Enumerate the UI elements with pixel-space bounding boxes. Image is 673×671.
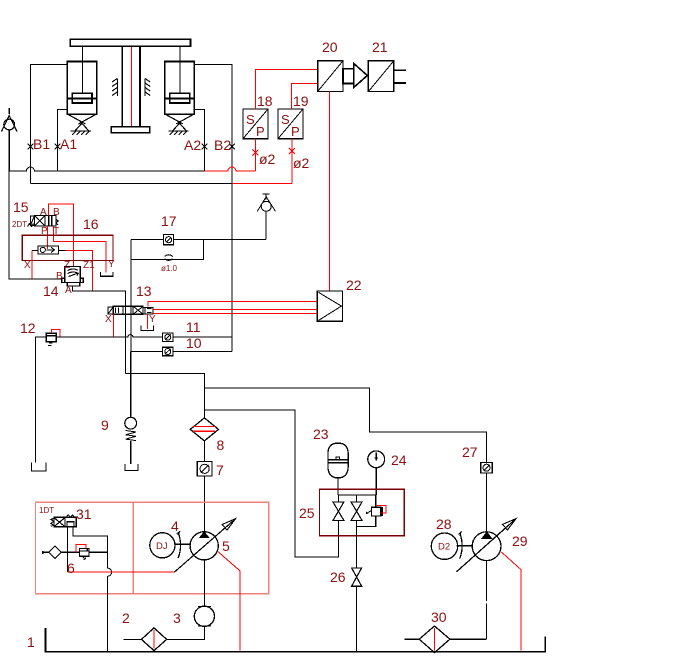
wire 14-A to valve 13 P bbox=[72, 286, 125, 374]
svg-text:14: 14 bbox=[43, 283, 59, 299]
check valve 17 bbox=[164, 235, 174, 245]
press base plate bbox=[111, 127, 149, 133]
svg-text:X: X bbox=[24, 260, 31, 271]
svg-text:24: 24 bbox=[391, 452, 407, 468]
wire 13 to amplifier 22 b bbox=[153, 308, 317, 310]
right guide hatch bbox=[145, 79, 151, 97]
port tick B2 bbox=[229, 144, 235, 150]
svg-text:6: 6 bbox=[67, 560, 75, 576]
vertical 13 T-line bbox=[130, 240, 132, 352]
drain bracket Y (block 16) bbox=[100, 272, 113, 276]
svg-text:P: P bbox=[41, 226, 48, 237]
orifice branch line bbox=[131, 240, 203, 260]
valve 13 X drain bbox=[113, 314, 115, 337]
port tick A1 bbox=[55, 144, 61, 150]
svg-text:Y: Y bbox=[149, 314, 156, 325]
svg-text:1: 1 bbox=[27, 634, 35, 650]
svg-text:Z1: Z1 bbox=[83, 260, 95, 271]
svg-text:ø2: ø2 bbox=[293, 155, 310, 171]
svg-text:17: 17 bbox=[161, 213, 177, 229]
line to accumulator block bbox=[204, 410, 338, 557]
svg-text:26: 26 bbox=[330, 569, 346, 585]
cylinder left body bbox=[67, 46, 96, 114]
port tick A2 bbox=[202, 144, 208, 150]
tank bracket (valve 9) bbox=[125, 464, 138, 470]
svg-text:5: 5 bbox=[222, 538, 230, 554]
svg-text:27: 27 bbox=[462, 444, 478, 460]
tank outline 1 bbox=[46, 628, 546, 652]
svg-text:P: P bbox=[291, 124, 300, 139]
svg-text:B: B bbox=[56, 271, 63, 282]
solenoid valve 15 bbox=[28, 215, 59, 226]
svg-text:S: S bbox=[246, 112, 255, 127]
wire check valve outlet Z1 bbox=[58, 250, 92, 291]
power unit enclosure bbox=[36, 502, 269, 593]
check valve 10 bbox=[163, 347, 173, 356]
swashplate arrow pump 5 bbox=[174, 519, 235, 573]
main pressure line to pump 5 bbox=[203, 476, 205, 532]
svg-text:ø1.0: ø1.0 bbox=[161, 264, 178, 273]
svg-text:2: 2 bbox=[122, 610, 130, 626]
svg-text:X: X bbox=[105, 314, 112, 325]
accumulator block 25 outline bbox=[320, 489, 405, 535]
left guide hatch bbox=[112, 79, 118, 97]
coupler between 20 and 21 bbox=[343, 63, 367, 87]
wire 18 to box 20 bbox=[255, 69, 317, 109]
wire 15-B to valve 14 pilot bbox=[48, 204, 73, 266]
svg-text:P: P bbox=[256, 124, 265, 139]
proportional valve 13 bbox=[108, 306, 153, 314]
valve 13 Y drain bbox=[146, 314, 148, 329]
pressure switch 18 bbox=[243, 109, 268, 139]
variable pump 5 bbox=[190, 532, 218, 560]
svg-text:10: 10 bbox=[186, 335, 202, 351]
svg-text:7: 7 bbox=[216, 462, 224, 478]
svg-text:D2: D2 bbox=[438, 542, 450, 553]
pump 29 drain (red) bbox=[501, 552, 521, 651]
svg-text:S: S bbox=[281, 112, 290, 127]
svg-text:Y: Y bbox=[108, 259, 115, 270]
cylinder left cone support + ground bbox=[68, 114, 96, 135]
svg-text:31: 31 bbox=[76, 506, 92, 522]
line 10 bbox=[131, 351, 232, 353]
shut-off valve 25a bbox=[333, 495, 344, 520]
electric motor 28 bbox=[431, 532, 472, 560]
svg-text:B2: B2 bbox=[214, 137, 231, 153]
shut-off valve 26 bbox=[352, 568, 362, 652]
press crossbeam bbox=[70, 39, 190, 46]
wire port B2 riser bbox=[194, 65, 232, 352]
svg-text:A: A bbox=[65, 285, 72, 296]
svg-text:25: 25 bbox=[299, 505, 315, 521]
svg-text:B1: B1 bbox=[33, 136, 50, 152]
wire 19 to B-line bbox=[289, 139, 295, 184]
wire check valve inlet X bbox=[32, 250, 38, 279]
wire 18 to A-line bbox=[252, 139, 258, 171]
accumulator 23 bbox=[328, 443, 348, 495]
svg-text:B: B bbox=[53, 207, 60, 218]
svg-text:12: 12 bbox=[20, 320, 36, 336]
pressure gauge 24 bbox=[368, 451, 385, 495]
valve 12 bbox=[46, 330, 60, 346]
reducing valve 6 bbox=[67, 544, 107, 559]
wire 19 to box 20 bbox=[292, 84, 318, 110]
wire 13 to amplifier 22 c bbox=[153, 313, 317, 315]
filter 30 bbox=[404, 626, 486, 653]
pressure switch 19 bbox=[278, 109, 303, 139]
tank bracket (valve 12) bbox=[31, 463, 46, 471]
block 25 top line bbox=[338, 494, 376, 496]
svg-text:A1: A1 bbox=[60, 136, 77, 152]
svg-text:15: 15 bbox=[13, 199, 29, 215]
breather mid bbox=[257, 194, 275, 240]
relief valve 9 bbox=[125, 352, 137, 465]
valve 31 right line bbox=[73, 527, 112, 652]
svg-text:21: 21 bbox=[372, 39, 388, 55]
feed pump 3 bbox=[167, 560, 215, 640]
drain bracket Y (valve 13) bbox=[141, 326, 154, 331]
manifold block 16 outline bbox=[22, 235, 113, 260]
svg-text:11: 11 bbox=[186, 319, 201, 335]
svg-text:20: 20 bbox=[322, 39, 338, 55]
orifice symbol bbox=[165, 255, 173, 261]
line valve12 to B2 riser bbox=[56, 335, 232, 338]
amplifier box 21 bbox=[368, 61, 405, 92]
node B-line bbox=[30, 183, 292, 185]
svg-text:1DT: 1DT bbox=[39, 506, 54, 515]
svg-text:13: 13 bbox=[136, 283, 152, 299]
amplifier box 22 bbox=[317, 291, 342, 321]
shut-off valve 25b bbox=[351, 495, 362, 520]
svg-text:3: 3 bbox=[173, 610, 181, 626]
breather left bbox=[2, 108, 18, 171]
svg-text:DJ: DJ bbox=[156, 541, 168, 552]
node A-line bbox=[9, 167, 255, 171]
check valve 11 bbox=[163, 333, 173, 342]
wire 13 to amplifier 22 a bbox=[148, 301, 317, 306]
wire box 20 to amplifier 22 bbox=[328, 92, 330, 292]
svg-text:28: 28 bbox=[436, 516, 452, 532]
wire port A2 bbox=[194, 110, 204, 171]
svg-text:2DT: 2DT bbox=[12, 220, 27, 229]
cylinder right cone support + ground bbox=[166, 114, 194, 135]
suction strainer (pilot) bbox=[43, 546, 68, 559]
filter 8 bbox=[190, 418, 218, 441]
svg-text:9: 9 bbox=[101, 417, 109, 433]
relief valve 25c bbox=[357, 495, 386, 526]
svg-text:16: 16 bbox=[83, 216, 99, 232]
svg-text:8: 8 bbox=[217, 437, 225, 453]
check valve 7 bbox=[197, 441, 212, 476]
svg-text:22: 22 bbox=[346, 277, 362, 293]
wire 14-B bbox=[9, 171, 62, 279]
svg-text:18: 18 bbox=[257, 93, 273, 109]
svg-text:23: 23 bbox=[313, 426, 329, 442]
svg-text:Z: Z bbox=[64, 260, 70, 271]
press column bbox=[122, 46, 140, 126]
pilot check valve in block 16 bbox=[38, 246, 58, 254]
port tick B1 bbox=[28, 144, 34, 150]
wire port A1 bbox=[57, 110, 67, 171]
pump 5 drain (red) bbox=[218, 552, 240, 651]
cylinder right body bbox=[165, 46, 194, 114]
suction filter 2 bbox=[124, 628, 167, 651]
valve 25b to 26 bbox=[356, 520, 358, 568]
pump riser to valve 13 bbox=[126, 374, 205, 418]
valve 31 down line bbox=[66, 527, 68, 572]
wire 15-P to pilot check valve bbox=[47, 226, 49, 249]
svg-text:T: T bbox=[53, 226, 59, 237]
svg-text:A: A bbox=[40, 207, 47, 218]
svg-text:30: 30 bbox=[431, 609, 447, 625]
svg-text:19: 19 bbox=[293, 93, 309, 109]
svg-text:ø2: ø2 bbox=[259, 151, 276, 167]
wire port B1 bbox=[30, 65, 67, 184]
svg-text:4: 4 bbox=[171, 518, 179, 534]
electric motor 4 bbox=[150, 531, 190, 558]
svg-text:29: 29 bbox=[512, 533, 528, 549]
pilot control line (red) to pump 5 bbox=[67, 571, 174, 573]
wire 15-T to Y drain bbox=[53, 226, 106, 273]
transducer box 20 bbox=[318, 61, 343, 92]
line to pump 29 branch bbox=[204, 388, 486, 462]
cartridge valve 14 bbox=[62, 267, 84, 287]
variable pump 29 bbox=[457, 519, 517, 640]
valve 12 tank line bbox=[35, 337, 46, 462]
svg-text:A2: A2 bbox=[184, 137, 201, 153]
check valve 27 bbox=[481, 462, 492, 533]
solenoid valve 31 bbox=[51, 515, 76, 527]
pilot line through 17 bbox=[131, 239, 266, 241]
